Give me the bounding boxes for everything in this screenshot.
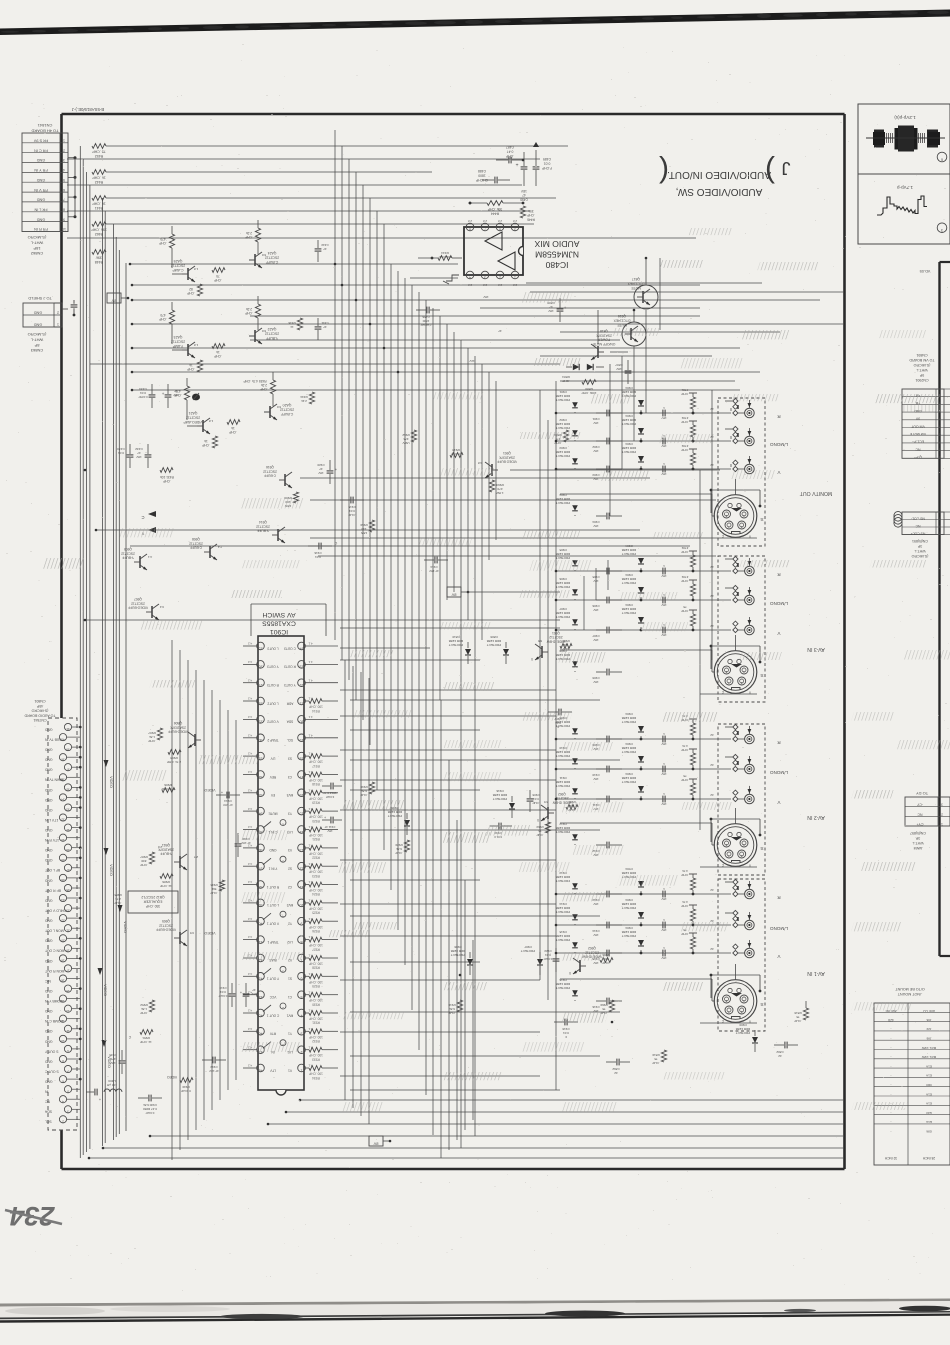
svg-text:DTC114EX: DTC114EX <box>613 318 631 322</box>
svg-text:C920: C920 <box>317 463 325 467</box>
svg-text:E1A: E1A <box>926 1120 932 1124</box>
svg-text:PROTECT: PROTECT <box>622 581 637 585</box>
svg-text:C OUT3: C OUT3 <box>284 646 296 650</box>
svg-text:18V: 18V <box>593 449 598 453</box>
wire <box>243 884 257 886</box>
wire <box>350 729 480 731</box>
RCA jack L/MONO AV-2 IN <box>725 754 788 775</box>
resistor R431 <box>160 468 174 484</box>
svg-text:2SC2712: 2SC2712 <box>555 796 569 800</box>
svg-text:4.2: 4.2 <box>248 1009 253 1013</box>
svg-text:R917: R917 <box>312 764 320 768</box>
svg-text:PROTECT: PROTECT <box>622 450 637 454</box>
svg-text:QB12 2SC2712: QB12 2SC2712 <box>141 895 164 899</box>
svg-text:LB03: LB03 <box>108 1079 116 1083</box>
wire <box>560 380 735 382</box>
capacitor C914 <box>216 790 240 807</box>
svg-text:22: 22 <box>710 947 714 951</box>
svg-text:18V: 18V <box>327 829 332 833</box>
svg-text:17: 17 <box>300 775 304 779</box>
svg-text:Y IN 1: Y IN 1 <box>268 867 277 871</box>
wire <box>106 223 534 225</box>
capacitor C915 <box>340 497 364 517</box>
wire <box>243 1012 257 1014</box>
svg-text:L OUT2: L OUT2 <box>267 701 278 705</box>
svg-text:2SC2712: 2SC2712 <box>159 923 173 927</box>
svg-text:COMB C IN: COMB C IN <box>44 1019 62 1023</box>
svg-text:.CHP: .CHP <box>681 904 688 908</box>
capacitor C433 <box>117 444 133 468</box>
svg-text:43: 43 <box>259 977 263 981</box>
svg-text:22: 22 <box>61 918 65 922</box>
svg-text:F: F <box>557 725 559 729</box>
wire <box>340 659 480 661</box>
svg-text:C915: C915 <box>348 505 356 509</box>
svg-text:D902: D902 <box>559 418 567 422</box>
svg-text:470k: 470k <box>681 546 688 550</box>
svg-text:D907: D907 <box>559 607 567 611</box>
svg-text:1.8: 1.8 <box>194 343 199 347</box>
svg-text:(S-MICRO: (S-MICRO <box>28 332 47 337</box>
svg-text:2.8: 2.8 <box>498 219 503 223</box>
wire <box>340 1031 540 1033</box>
svg-text:(S-MICRO: (S-MICRO <box>913 363 930 367</box>
svg-text:5: 5 <box>514 227 516 231</box>
svg-text:Q914: Q914 <box>259 520 267 524</box>
svg-text:8.5: 8.5 <box>544 800 549 804</box>
wire S row <box>560 823 715 845</box>
capacitor cluster <box>556 493 622 528</box>
svg-text:C906: C906 <box>592 604 600 608</box>
svg-text:39k: 39k <box>96 256 102 260</box>
resistor R926 <box>305 919 338 933</box>
resistor R945 <box>210 880 225 895</box>
svg-text:CN2901: CN2901 <box>915 378 928 382</box>
svg-text:J23: J23 <box>926 1027 931 1031</box>
svg-text:.CHP: .CHP <box>245 235 253 239</box>
svg-text:26: 26 <box>61 878 65 882</box>
resistor R442 <box>92 170 106 185</box>
svg-text:4.2: 4.2 <box>248 678 253 682</box>
svg-text:.CHP: .CHP <box>681 932 688 936</box>
svg-text:C807: C807 <box>615 363 623 367</box>
svg-text:WHT-L: WHT-L <box>30 337 43 342</box>
svg-text:-: - <box>890 1111 891 1115</box>
svg-text:L/MONO: L/MONO <box>770 926 789 931</box>
resistor R818 <box>794 1001 809 1023</box>
svg-text:R987: R987 <box>140 855 148 859</box>
transistor Q902b WIDE ID-BW <box>537 792 578 822</box>
svg-text:2.2k: 2.2k <box>246 307 252 311</box>
svg-text:MUTE: MUTE <box>268 811 277 815</box>
connector CN801 outline <box>48 718 77 1130</box>
svg-text:4.2: 4.2 <box>248 770 253 774</box>
svg-text:1.8k: 1.8k <box>141 1007 147 1011</box>
RCA jack V AV-3 IN <box>733 617 781 636</box>
capacitor C434 <box>139 384 156 408</box>
svg-text:AUDIO MIX: AUDIO MIX <box>534 239 579 249</box>
svg-text:PROTECT: PROTECT <box>487 643 502 647</box>
svg-text:C488: C488 <box>478 169 486 173</box>
svg-text:.CHP: .CHP <box>214 354 222 358</box>
svg-text:CN891: CN891 <box>916 353 927 357</box>
svg-text:E1A: E1A <box>926 1064 932 1068</box>
svg-text:21: 21 <box>66 928 70 932</box>
capacitor C432 <box>135 444 151 468</box>
svg-text:R969: R969 <box>360 523 368 527</box>
svg-text:1.8: 1.8 <box>209 419 214 423</box>
svg-text:R949: R949 <box>182 1085 190 1089</box>
RCA jack R AV-3 IN <box>725 556 781 577</box>
connector TO DY table <box>905 797 950 826</box>
svg-text:R919: R919 <box>312 801 320 805</box>
svg-text:C912 0.47: C912 0.47 <box>323 791 337 795</box>
svg-text:R968: R968 <box>562 639 570 643</box>
svg-text:D904: D904 <box>559 493 567 497</box>
svg-text:GND: GND <box>44 898 52 902</box>
resistor R951 <box>128 1030 153 1045</box>
wire <box>243 755 257 757</box>
wire <box>243 792 257 794</box>
svg-text:.CHP: .CHP <box>395 851 402 855</box>
svg-text:100 .CHP: 100 .CHP <box>309 796 323 800</box>
svg-text:18V: 18V <box>593 961 598 965</box>
svg-text:C802: C802 <box>776 1050 784 1054</box>
svg-text:GND: GND <box>44 788 52 792</box>
svg-text:C916: C916 <box>314 551 322 555</box>
capacitor C490 <box>515 152 527 201</box>
smudges <box>43 228 950 1112</box>
resistor R969 <box>600 1000 615 1015</box>
wire <box>305 737 338 739</box>
svg-text:470 .CHP: 470 .CHP <box>161 787 174 791</box>
svg-text:18V: 18V <box>483 295 488 299</box>
svg-text:2.0: 2.0 <box>158 845 163 849</box>
svg-text:32: 32 <box>259 775 263 779</box>
wire <box>355 172 357 700</box>
svg-text:C-BUFF: C-BUFF <box>264 474 276 478</box>
svg-text:18V: 18V <box>661 772 666 776</box>
svg-text:R OUT3: R OUT3 <box>284 665 296 669</box>
svg-text:2.8: 2.8 <box>513 219 518 223</box>
svg-text:4.2: 4.2 <box>248 642 253 646</box>
waveform 2 trace <box>877 196 927 215</box>
wire <box>243 774 257 776</box>
svg-text:RDB 1E5B: RDB 1E5B <box>388 810 403 814</box>
capacitor cluster <box>556 930 622 965</box>
RCA jack L/MONO AV-3 IN <box>725 585 788 606</box>
svg-text:D914: D914 <box>559 902 567 906</box>
capacitor cluster <box>556 446 622 481</box>
wire <box>432 308 434 1135</box>
svg-text:1.2Vp-p(s): 1.2Vp-p(s) <box>894 115 916 120</box>
capacitor C892 <box>606 1059 630 1075</box>
svg-text:D904: D904 <box>625 772 633 776</box>
svg-text:V OUT2: V OUT2 <box>267 720 279 724</box>
svg-text:VD-05: VD-05 <box>920 269 931 273</box>
IC901 right pins 1-24 <box>284 642 313 1073</box>
svg-text:2.8: 2.8 <box>483 219 488 223</box>
wire <box>526 282 762 284</box>
DIN connector S AV-2 IN <box>700 808 764 867</box>
svg-text:+: + <box>563 305 566 310</box>
svg-text:BF L OUT: BF L OUT <box>45 868 60 872</box>
svg-text:C-BUFF: C-BUFF <box>266 260 278 264</box>
resistor R918 <box>305 772 338 786</box>
wire <box>425 300 427 1095</box>
wire <box>340 903 556 905</box>
diode D907b <box>521 945 543 975</box>
svg-text:MV2: MV2 <box>287 903 294 907</box>
svg-text:1.7Vp-p: 1.7Vp-p <box>897 185 914 190</box>
svg-text:41: 41 <box>259 940 263 944</box>
svg-text:Q817: Q817 <box>632 277 640 281</box>
svg-text:L OUT3: L OUT3 <box>267 646 278 650</box>
svg-text:C908: C908 <box>532 793 539 797</box>
wire <box>89 1157 844 1159</box>
svg-text:C441: C441 <box>321 321 329 325</box>
wire <box>132 347 740 349</box>
wire <box>453 332 455 592</box>
svg-text:39k .CHP: 39k .CHP <box>438 255 451 259</box>
svg-text:2SC2712: 2SC2712 <box>186 415 200 419</box>
svg-text:GND: GND <box>44 919 52 923</box>
svg-text:V3: V3 <box>288 848 292 852</box>
svg-text:AVE CO: AVE CO <box>923 1009 935 1013</box>
wire <box>418 292 420 1050</box>
svg-text:10: 10 <box>62 227 66 231</box>
svg-text:ADR: ADR <box>286 701 293 705</box>
svg-text:22: 22 <box>710 733 714 737</box>
svg-text:4.1: 4.1 <box>308 678 313 682</box>
label VIDEO node 2 <box>204 931 215 935</box>
wire <box>219 700 221 1100</box>
transistor Q909 Y-BUFF <box>121 547 152 570</box>
wire <box>711 390 713 660</box>
svg-text:.CHP: .CHP <box>187 367 195 371</box>
svg-text:C933: C933 <box>210 1065 218 1069</box>
svg-text:.CHP: .CHP <box>527 213 535 217</box>
svg-text:SCL: SCL <box>287 738 293 742</box>
svg-text:4.2: 4.2 <box>248 807 253 811</box>
wire <box>730 464 732 467</box>
wire <box>179 650 181 1150</box>
svg-text:24: 24 <box>61 898 65 902</box>
svg-text:Q907: Q907 <box>134 597 142 601</box>
svg-text:100 µH: 100 µH <box>107 1083 117 1087</box>
node arrow VIDEO <box>118 905 128 933</box>
waveform 2 number <box>937 223 947 233</box>
resistor R462 <box>91 222 107 237</box>
wire S row <box>560 650 715 672</box>
wire <box>350 789 480 791</box>
svg-text:3: 3 <box>939 516 941 520</box>
svg-text:D904: D904 <box>625 712 633 716</box>
svg-text:PROTECT: PROTECT <box>556 454 571 458</box>
svg-text:.CHP: .CHP <box>681 420 688 424</box>
svg-text:36: 36 <box>259 848 263 852</box>
svg-text:8: 8 <box>63 207 65 211</box>
svg-text:27: 27 <box>66 868 70 872</box>
jack group dashed outline MONITV OUT <box>718 398 765 546</box>
svg-text:0.01: 0.01 <box>533 797 539 801</box>
svg-text:R925: R925 <box>312 911 320 915</box>
wire bus vertical <box>115 237 117 1137</box>
transistor QA21/QA20 VIDEO-AMP cell <box>174 372 294 448</box>
svg-text:1k .CHP: 1k .CHP <box>92 176 106 180</box>
wire <box>132 284 700 286</box>
svg-text:18V: 18V <box>661 633 666 637</box>
svg-text:Y1: Y1 <box>288 1032 292 1036</box>
wire bus vertical <box>82 159 84 1155</box>
svg-text:0.47 R950: 0.47 R950 <box>143 1107 157 1111</box>
transistor Q818 POWER MUTE <box>591 329 615 360</box>
wire <box>305 718 338 720</box>
wire <box>469 202 525 205</box>
svg-text:R930: R930 <box>312 1002 320 1006</box>
svg-text:J: J <box>782 158 791 178</box>
svg-text:.CHP: .CHP <box>681 748 688 752</box>
svg-text:.CHP: .CHP <box>505 154 514 158</box>
label MONITV OUT <box>799 490 832 496</box>
svg-text:4Z8: 4Z8 <box>888 1018 894 1022</box>
svg-text:-: - <box>890 1046 891 1050</box>
svg-text:D904: D904 <box>625 926 633 930</box>
svg-text:1k .CHP: 1k .CHP <box>160 884 172 888</box>
svg-text:FR S 9V: FR S 9V <box>33 139 48 143</box>
transistor QB06 VIDEO-BUFF <box>148 721 201 764</box>
resistor R918b <box>448 1000 463 1015</box>
svg-text:47: 47 <box>549 305 553 309</box>
svg-text:1k: 1k <box>204 439 208 443</box>
svg-text:47 18V: 47 18V <box>241 841 251 845</box>
capacitor C939 <box>235 833 251 857</box>
svg-text:40: 40 <box>259 922 263 926</box>
svg-text:25: 25 <box>66 888 70 892</box>
resistor R921 <box>305 827 338 841</box>
svg-text:1: 1 <box>301 1068 303 1072</box>
svg-text:Q905: Q905 <box>162 919 170 923</box>
ground chain CN862 <box>68 156 77 218</box>
svg-text:3: 3 <box>941 803 943 807</box>
svg-text:35: 35 <box>66 788 70 792</box>
svg-text:C-BUFF: C-BUFF <box>281 412 293 416</box>
DIN connector S AV-3 IN <box>700 635 764 694</box>
svg-text:GND: GND <box>34 311 43 315</box>
svg-text:C904: C904 <box>592 520 600 524</box>
svg-text:18V: 18V <box>593 477 598 481</box>
connector NS coil table <box>902 512 950 535</box>
wire <box>621 356 623 469</box>
svg-text:F.CHP: F.CHP <box>139 395 148 399</box>
svg-text:75 .CHP: 75 .CHP <box>92 150 106 154</box>
svg-text:E1A: E1A <box>926 1074 932 1078</box>
svg-text:0: 0 <box>531 657 533 661</box>
svg-text:R985: R985 <box>114 893 122 897</box>
wire <box>132 371 760 373</box>
svg-text:24: 24 <box>300 646 304 650</box>
svg-text:+: + <box>161 391 164 396</box>
svg-text:PROTECT: PROTECT <box>622 611 637 615</box>
capacitor cluster <box>556 649 622 684</box>
svg-text:30: 30 <box>61 838 65 842</box>
svg-text:R962: R962 <box>402 433 410 437</box>
svg-text:16: 16 <box>61 979 65 983</box>
svg-text:2SA1037K: 2SA1037K <box>498 455 515 459</box>
svg-text:2: 2 <box>57 311 59 315</box>
svg-text:PROTECT: PROTECT <box>622 934 637 938</box>
svg-text:.CHP: .CHP <box>245 311 253 315</box>
svg-text:VIDEO-BUFF: VIDEO-BUFF <box>156 928 176 932</box>
svg-text:2SC2712: 2SC2712 <box>263 469 277 473</box>
svg-text:B-5SA819/0E.)-J: B-5SA819/0E.)-J <box>72 107 104 112</box>
svg-text:6.8k: 6.8k <box>449 1007 455 1011</box>
wire <box>350 961 480 963</box>
svg-text:.CHP: .CHP <box>140 863 147 867</box>
svg-text:POWER: POWER <box>597 338 610 342</box>
svg-text:S: S <box>760 516 763 522</box>
svg-text:C487: C487 <box>506 145 514 149</box>
svg-text:GND: GND <box>44 748 52 752</box>
svg-text:47: 47 <box>174 389 178 393</box>
svg-text:WHT-L: WHT-L <box>30 240 43 245</box>
svg-text:D904: D904 <box>625 442 633 446</box>
jack group dashed outline AV-3 IN <box>718 556 765 702</box>
diode protect row y894 <box>556 867 731 901</box>
svg-text:R924: R924 <box>312 892 320 896</box>
resistor R906 <box>161 783 175 792</box>
svg-text:RTV: RTV <box>269 1032 276 1036</box>
svg-text:47: 47 <box>323 325 327 329</box>
node arrow VIDEO <box>98 968 108 996</box>
svg-text:18V: 18V <box>661 956 666 960</box>
wire <box>472 940 474 1120</box>
capacitor cluster <box>556 418 622 453</box>
resistor R925 <box>305 901 338 915</box>
wire <box>243 700 257 702</box>
svg-text:4: 4 <box>469 275 471 279</box>
svg-text:R918: R918 <box>312 782 320 786</box>
svg-text:(S-MICRO: (S-MICRO <box>28 235 47 240</box>
svg-text:C443: C443 <box>321 243 329 247</box>
svg-text:1: 1 <box>63 139 65 143</box>
wire <box>243 810 257 812</box>
wire <box>243 975 257 977</box>
svg-text:D904: D904 <box>625 603 633 607</box>
svg-text:6: 6 <box>63 188 65 192</box>
svg-text:47: 47 <box>319 467 323 471</box>
svg-text:46: 46 <box>259 1032 263 1036</box>
svg-text:C-AMP: C-AMP <box>172 268 184 272</box>
svg-text:6: 6 <box>499 227 501 231</box>
svg-text:130: 130 <box>361 527 366 531</box>
capacitor C431 <box>161 384 178 408</box>
svg-text:100 .CHP: 100 .CHP <box>309 925 323 929</box>
wire <box>305 645 338 647</box>
wire <box>383 224 385 850</box>
svg-text:15: 15 <box>66 989 70 993</box>
wire <box>85 619 560 621</box>
svg-text:IC901: IC901 <box>270 628 288 635</box>
svg-text:RDB 1E5B: RDB 1E5B <box>556 906 571 910</box>
svg-text:18W: 18W <box>361 531 367 535</box>
capacitor cluster <box>556 746 622 781</box>
svg-text:R OUT3: R OUT3 <box>267 683 279 687</box>
svg-text:RDB 1E5B: RDB 1E5B <box>487 639 502 643</box>
wire <box>464 880 466 1130</box>
svg-text:COMB Y IN: COMB Y IN <box>44 999 62 1003</box>
svg-text:C914: C914 <box>592 929 600 933</box>
